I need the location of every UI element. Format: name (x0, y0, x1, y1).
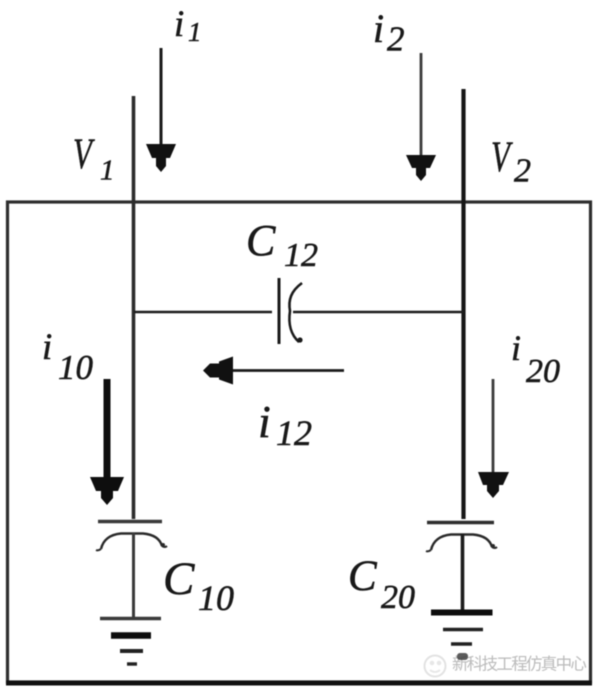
wire C20 to ground (461, 534, 465, 610)
svg-text:2: 2 (387, 20, 405, 59)
svg-text:1: 1 (100, 155, 115, 187)
svg-text:12: 12 (284, 237, 318, 274)
current arrow i12 (203, 357, 344, 385)
svg-text:10: 10 (198, 578, 234, 618)
wire C10 to ground (132, 533, 135, 617)
svg-text:i: i (511, 328, 521, 368)
label C20 (348, 553, 415, 616)
label i20 (511, 328, 560, 390)
svg-text:i: i (258, 396, 271, 447)
svg-text:1: 1 (188, 17, 202, 47)
capacitor C12 (279, 278, 303, 344)
svg-text:C: C (163, 553, 195, 605)
watermark text (452, 655, 588, 676)
label C10 (163, 553, 234, 618)
watermark smudge (457, 653, 468, 660)
enclosure box (6, 202, 592, 683)
wire horizontal right of C12 (293, 311, 464, 314)
watermark logo (425, 656, 446, 677)
current arrow i2 (406, 53, 436, 181)
svg-text:i: i (42, 327, 52, 368)
svg-text:C: C (348, 553, 378, 600)
capacitor C20 (426, 523, 497, 552)
label i12 (258, 396, 312, 453)
svg-text:12: 12 (276, 413, 312, 453)
label i2 (373, 6, 405, 59)
svg-text:20: 20 (526, 353, 560, 390)
svg-text:C: C (246, 216, 276, 265)
label V1 (73, 131, 115, 186)
label C12 (246, 216, 318, 274)
svg-text:i: i (373, 6, 384, 51)
wire node 1 vertical (132, 96, 136, 519)
ground for C10 (100, 619, 161, 665)
svg-text:10: 10 (58, 348, 94, 387)
capacitor C10 (96, 522, 167, 551)
wire node 2 vertical (461, 89, 465, 519)
current arrow i20 (478, 379, 509, 498)
svg-text:20: 20 (381, 579, 415, 616)
label i10 (42, 327, 94, 387)
current arrow i1 (146, 48, 176, 172)
wire horizontal left of C12 (134, 311, 272, 314)
current arrow i10 (90, 379, 124, 505)
ground for C20 (431, 613, 493, 645)
svg-text:2: 2 (514, 153, 531, 190)
label V2 (491, 134, 531, 189)
label i1 (174, 4, 202, 47)
svg-text:i: i (174, 4, 184, 45)
svg-text:新科技工程仿真中心: 新科技工程仿真中心 (452, 655, 586, 674)
